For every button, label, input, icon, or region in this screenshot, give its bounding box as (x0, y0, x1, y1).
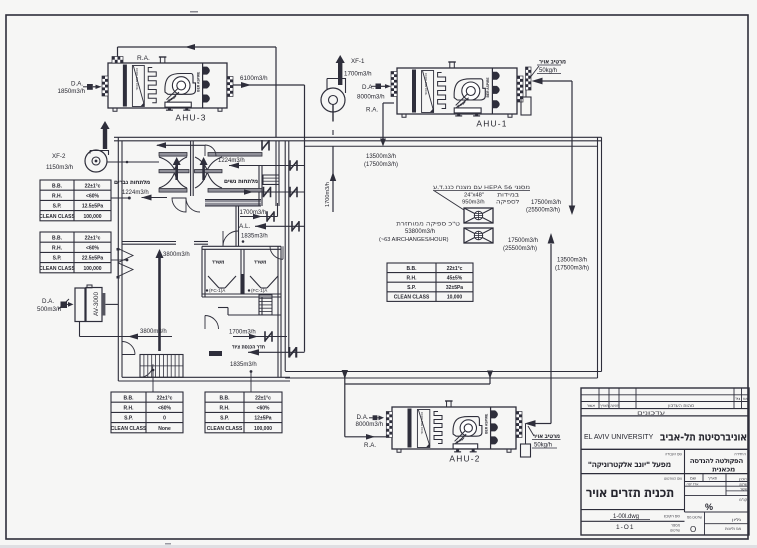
return duct y=384 (345, 383, 490, 385)
HEPA filter symbol 1 (464, 208, 493, 223)
table 3 leader (152, 370, 154, 392)
svg-text:CLEAN CLASS: CLEAN CLASS (39, 214, 75, 220)
AHU-1 supply arrow (532, 78, 543, 85)
svg-text:D.A.: D.A. (71, 81, 83, 88)
AHU-1 right outlet grille (517, 76, 523, 102)
svg-text:CLEAN CLASS: CLEAN CLASS (39, 266, 75, 272)
humidifier leader AHU-2 (528, 426, 534, 436)
svg-text:S.P.: S.P. (53, 256, 62, 262)
duct bar top right (208, 153, 262, 157)
A.L. room left wall (235, 206, 237, 246)
door left wall lower (122, 342, 135, 355)
svg-text:3800m3/h: 3800m3/h (163, 252, 190, 258)
stairs small office (259, 295, 272, 315)
svg-text:0: 0 (163, 416, 166, 422)
svg-text:R.H.: R.H. (220, 406, 231, 412)
stairs top right (263, 175, 279, 185)
duct 1700 upper (240, 216, 278, 218)
svg-text:1850m3/h: 1850m3/h (58, 88, 86, 95)
AHU-1 air handling unit (397, 68, 517, 114)
AHU-1 humidifier box (521, 97, 531, 115)
office diffuser 2 (250, 276, 278, 288)
svg-text:AV-3000: AV-3000 (93, 292, 100, 316)
corridor wall x=276 (275, 141, 277, 206)
svg-text:(FC-1)A: (FC-1)A (209, 288, 226, 293)
AV-3000 unit (75, 288, 85, 322)
svg-text:500m3/h: 500m3/h (37, 306, 62, 313)
AV-3000 D.A. damper (61, 302, 68, 309)
svg-text:22±1°c: 22±1°c (85, 235, 101, 241)
svg-text:S.P.: S.P. (220, 416, 229, 422)
door arc men locker (172, 198, 186, 212)
svg-text:D.A.: D.A. (362, 84, 374, 91)
svg-text:1700m3/h: 1700m3/h (344, 71, 372, 78)
svg-text:32±5Pa: 32±5Pa (446, 285, 463, 291)
door arc corridor right (270, 246, 283, 259)
svg-text:1224m3/h: 1224m3/h (218, 158, 245, 164)
AHU-2 return drop (342, 370, 348, 379)
svg-text:AHU-3: AHU-3 (175, 113, 206, 123)
svg-text:COOLING COIL: COOLING COIL (420, 412, 424, 435)
svg-text:17500m3/h: 17500m3/h (508, 238, 538, 244)
svg-text:(17500m3/h): (17500m3/h) (555, 266, 589, 272)
AHU-2 left intake grille (386, 412, 392, 438)
AHU-3 R.A. top grille (112, 57, 123, 64)
svg-text:A.L.: A.L. (239, 223, 251, 230)
spec table 4 (205, 392, 282, 433)
offices bottom wall (202, 293, 281, 295)
svg-text:(FC-1)A: (FC-1)A (251, 288, 268, 293)
duct bar top left (159, 153, 187, 157)
svg-text:<60%: <60% (158, 406, 171, 412)
svg-text:D.A.: D.A. (42, 298, 54, 305)
supply riser bottom damper (289, 347, 296, 358)
scan shadow bottom (0, 545, 757, 548)
AV-3000 bottom duct (79, 322, 81, 337)
air arrow up women (202, 164, 205, 180)
return duct drop at x=276 (275, 47, 277, 138)
svg-text:B.B.: B.B. (124, 395, 135, 401)
svg-text:%: % (705, 502, 713, 512)
svg-text:<60%: <60% (86, 246, 99, 252)
duct 1835 corridor (248, 351, 305, 353)
AHU-1 R.A. duct (383, 102, 394, 104)
duct bar bottom right (208, 189, 262, 193)
XF-2 discharge arrow (103, 128, 107, 149)
duct 1700 riser clean room (332, 146, 334, 212)
svg-text:BER ASPIRE: BER ASPIRE (486, 77, 490, 98)
AHU-2 return duct bottom (345, 436, 387, 438)
svg-text:B.B.: B.B. (220, 395, 231, 401)
duct 3800 vertical (158, 258, 161, 351)
svg-text:R.H.: R.H. (124, 406, 135, 412)
svg-text:D.A.: D.A. (357, 414, 369, 421)
offices right wall (277, 246, 279, 377)
svg-text:B.B.: B.B. (52, 183, 63, 189)
AHU-3 D.A. damper (87, 84, 93, 90)
damper on mens supply (262, 140, 269, 151)
clean room inner ceiling line (305, 145, 598, 147)
svg-text:AHU-2: AHU-2 (449, 454, 480, 464)
XF-1 discharge arrow (338, 62, 342, 85)
svg-text:1150m3/h: 1150m3/h (46, 164, 74, 171)
AHU-2 supply arrow (535, 423, 551, 425)
duct 3800 left (80, 336, 173, 338)
svg-text:12±5Pa: 12±5Pa (254, 416, 271, 422)
XF-2 suction line (107, 161, 159, 163)
AHU-3 air handling unit (108, 63, 227, 108)
label office 1 (212, 261, 224, 264)
AHU-2 humidifier box (521, 444, 531, 457)
svg-text:22±1°c: 22±1°c (447, 266, 463, 272)
label equipment room (232, 345, 265, 348)
duct A.L. (255, 225, 305, 227)
exhaust duct L2 (230, 191, 305, 193)
svg-text:R.A.: R.A. (366, 107, 378, 114)
door arc A.L. (223, 231, 238, 246)
svg-text:12.5±5Pa: 12.5±5Pa (82, 204, 104, 210)
AHU-3 left intake grille (102, 76, 108, 96)
svg-text:AHU-1: AHU-1 (476, 119, 507, 129)
svg-text:1700m3/h: 1700m3/h (325, 182, 331, 207)
svg-text:BER ASPIRE: BER ASPIRE (484, 413, 488, 434)
svg-text:O: O (690, 525, 696, 534)
funnel transition men (159, 157, 187, 188)
svg-text:13500m3/h: 13500m3/h (366, 154, 396, 160)
label lockers men (114, 180, 149, 184)
XF-1 fan scroll (327, 79, 346, 94)
svg-text:100,000: 100,000 (254, 426, 272, 432)
AHU-2 supply riser (550, 244, 552, 424)
svg-text:1-O1: 1-O1 (616, 524, 634, 531)
svg-text:R.H.: R.H. (52, 194, 63, 200)
svg-text:(~63 AIRCHANGES/HOUR): (~63 AIRCHANGES/HOUR) (379, 237, 449, 243)
label office 2 (254, 261, 266, 264)
spec table 1 (40, 180, 111, 221)
svg-text:B.B.: B.B. (52, 235, 63, 241)
door bottom stairs (140, 364, 153, 377)
duct bar mid left (159, 170, 189, 173)
R.A. return duct AHU-3 (117, 47, 119, 57)
wall stub below offices (258, 297, 260, 315)
svg-text:CLEAN CLASS: CLEAN CLASS (207, 426, 243, 432)
svg-text:<60%: <60% (257, 406, 270, 412)
supply riser x=572 (571, 81, 573, 206)
svg-text:R.A.: R.A. (137, 55, 150, 62)
svg-text:6100m3/h: 6100m3/h (240, 75, 268, 82)
svg-text:S.P.: S.P. (407, 285, 416, 291)
HEPA leader line (434, 191, 464, 210)
svg-text:None: None (158, 426, 171, 432)
scan mark top (190, 11, 198, 13)
svg-text:22±1°c: 22±1°c (157, 395, 173, 401)
duct bar bottom left (159, 189, 187, 193)
floor plan top wall (114, 136, 602, 138)
svg-text:8000m3/h: 8000m3/h (357, 94, 385, 101)
svg-text:3800m3/h: 3800m3/h (140, 329, 167, 335)
AHU-1 D.A. damper (376, 84, 382, 90)
double door left wall (118, 249, 133, 277)
svg-text:22±1°c: 22±1°c (85, 183, 101, 189)
svg-text:XF-1: XF-1 (351, 58, 365, 65)
floor plan left wall (117, 137, 119, 381)
women locker right wall (258, 166, 260, 206)
spec table 2 (40, 232, 111, 273)
corridor wall (228, 314, 281, 316)
door women top (205, 145, 216, 156)
svg-text:S.P.: S.P. (53, 204, 62, 210)
AHU-2 D.A. damper (373, 415, 378, 420)
offices left wall (201, 246, 203, 297)
AHU-3 supply duct (233, 84, 305, 86)
clean room left wall (284, 141, 286, 371)
svg-text:1835m3/h: 1835m3/h (241, 234, 268, 240)
svg-text:B.B.: B.B. (407, 266, 418, 272)
AHU-1 left intake grille (391, 72, 397, 97)
funnel transition women (195, 157, 222, 188)
svg-text:CLEAN CLASS: CLEAN CLASS (394, 295, 430, 301)
svg-text:(17500m3/h): (17500m3/h) (364, 162, 398, 168)
spec table 5 (387, 263, 473, 301)
room return riser x=490 (489, 372, 491, 384)
office divider wall (240, 249, 242, 294)
svg-text:10,000: 10,000 (447, 295, 463, 301)
label recirculation (396, 222, 459, 227)
svg-text:BER ASPIRE: BER ASPIRE (196, 71, 200, 92)
door arc corridor (205, 316, 219, 330)
svg-text:1835m3/h: 1835m3/h (230, 362, 257, 368)
women supply duct (229, 165, 305, 167)
center duct column (190, 141, 192, 196)
left section bottom wall (118, 380, 290, 382)
XF-2 fan scroll (90, 151, 109, 156)
svg-text:S.P.: S.P. (124, 416, 133, 422)
svg-text:XF-2: XF-2 (52, 153, 66, 160)
humidifier leader AHU-1 (529, 66, 539, 79)
svg-text:100,000: 100,000 (83, 214, 101, 220)
table 2 leader (111, 259, 127, 261)
HEPA filter symbol 2 (464, 228, 493, 243)
men locker bottom wall (122, 241, 176, 243)
label humidifier AHU-2 (533, 435, 559, 439)
svg-text:R.H.: R.H. (52, 246, 63, 252)
svg-text:24"x48": 24"x48" (464, 193, 484, 199)
title block (581, 388, 749, 535)
women locker bottom wall (205, 200, 261, 207)
svg-text:CLEAN CLASS: CLEAN CLASS (111, 426, 147, 432)
label HEPA line1 (433, 185, 529, 189)
office diffuser 1 (208, 276, 236, 288)
AHU-1 D.A. arrow (381, 85, 386, 87)
AV-3000 outlet line (105, 303, 118, 305)
svg-text:(25500m3/h): (25500m3/h) (503, 246, 537, 252)
duct 1700 lower (233, 336, 287, 338)
AHU-3 right outlet grille (227, 77, 233, 97)
black door block (209, 351, 222, 356)
svg-text:COOLING COIL: COOLING COIL (424, 73, 428, 96)
table 4 leader (250, 372, 252, 392)
svg-text:17500m3/h: 17500m3/h (531, 200, 561, 206)
supply riser x=304.5 (304, 85, 306, 352)
men supply arrow (142, 197, 168, 199)
clean room bottom wall (285, 371, 601, 373)
duct bar mid right (195, 170, 223, 173)
big staircase (140, 355, 183, 378)
table 1 leader (111, 197, 128, 199)
svg-text:53800m3/h: 53800m3/h (405, 229, 435, 235)
label humidifier AHU-1 (539, 60, 565, 64)
AHU-1 discharge grille column (526, 67, 532, 90)
air arrow up men (175, 164, 178, 180)
svg-text:22.5±5Pa: 22.5±5Pa (82, 256, 104, 262)
svg-text:R.A.: R.A. (364, 442, 376, 449)
svg-text:22±1°c: 22±1°c (255, 395, 271, 401)
svg-text:8000m3/h: 8000m3/h (356, 421, 384, 428)
spec table 3 (111, 392, 183, 433)
svg-text:100,000: 100,000 (83, 266, 101, 272)
svg-text:R.H.: R.H. (407, 276, 418, 282)
clean room right wall (597, 137, 599, 378)
svg-text:13500m3/h: 13500m3/h (557, 258, 587, 264)
svg-text:<60%: <60% (86, 194, 99, 200)
svg-text:COOLING COIL: COOLING COIL (135, 68, 139, 91)
svg-text:950m3/h: 950m3/h (462, 200, 485, 206)
AHU-2 right outlet grille (516, 412, 522, 438)
men duct L10 (157, 144, 205, 146)
svg-text:(25500m3/h): (25500m3/h) (526, 208, 560, 214)
svg-text:1224m3/h: 1224m3/h (122, 190, 149, 196)
AHU-2 air handling unit (392, 407, 516, 449)
svg-text:45±5%: 45±5% (447, 276, 463, 282)
offices top wall (202, 245, 281, 247)
AHU-3 D.A. arrow (93, 86, 96, 88)
label lockers women (224, 179, 257, 183)
svg-text:EL AVIV UNIVERSITY: EL AVIV UNIVERSITY (584, 434, 654, 441)
svg-text:1700m3/h: 1700m3/h (240, 210, 267, 216)
